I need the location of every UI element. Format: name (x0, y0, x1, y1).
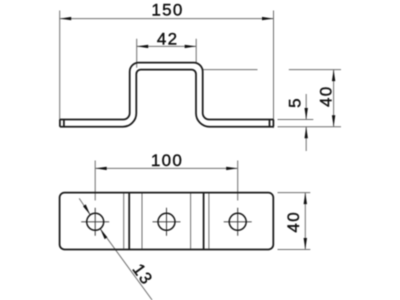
svg-text:100: 100 (151, 151, 183, 170)
svg-text:40: 40 (316, 86, 335, 108)
svg-text:150: 150 (151, 1, 183, 20)
svg-text:42: 42 (157, 30, 179, 49)
svg-text:5: 5 (286, 97, 305, 108)
svg-text:40: 40 (284, 211, 303, 233)
